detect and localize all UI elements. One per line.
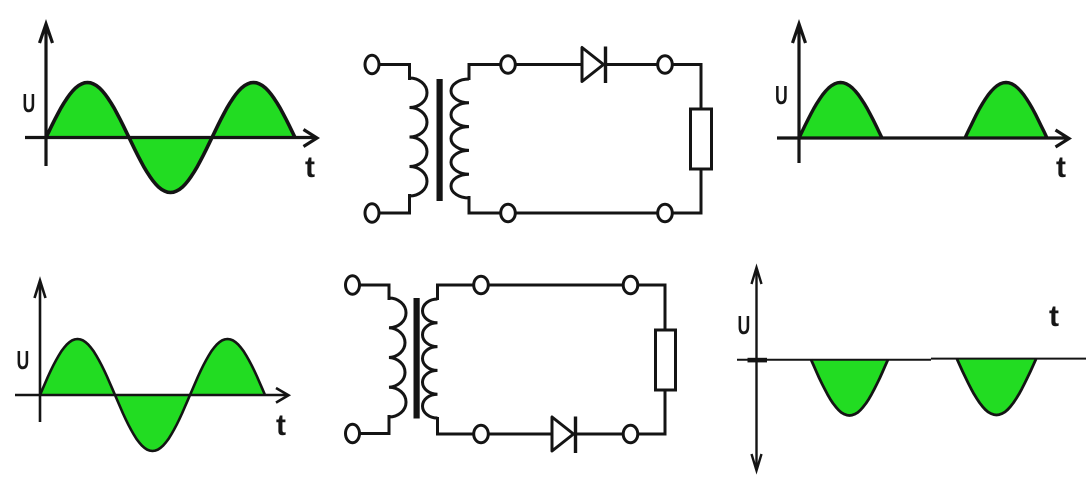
svg-text:t: t [1056,151,1066,184]
transformer core (top circuit) [437,79,443,201]
diode D1 triangle (top circuit) [582,48,604,82]
svg-text:U: U [738,311,751,340]
input sine waveform (top-left graph), green fill [46,83,295,193]
arrowhead up (bottom-right U axis) [752,268,762,285]
node circle top rail left (bottom circuit) [474,276,489,294]
output waveform positive humps (top-right graph) hump 1 [799,83,882,139]
svg-text:U: U [17,346,30,375]
wire secondary top exit and top rail (bottom circuit) [438,285,666,331]
wire primary top (bottom circuit) [353,285,390,300]
arrowhead right (top-right t axis) [1056,130,1070,147]
node circle bottom rail left (top circuit) [501,204,516,222]
svg-text:t: t [276,409,286,442]
axis vertical U (top-left graph) [44,25,47,166]
svg-text:U: U [775,81,788,110]
transformer secondary winding L2 (top circuit) [451,79,469,198]
diode D1 cathode bar (top circuit) [604,47,607,84]
axis horizontal t (top-left graph) [25,136,316,139]
diode D2 triangle (bottom circuit) [552,417,574,451]
svg-text:t: t [305,151,315,184]
terminal circle bottom-left (bottom circuit) [346,424,360,442]
arrowhead right (bottom-left t axis) [276,388,289,403]
output waveform negative hump 1 (bottom-right graph) [811,360,888,416]
axis horizontal t left segment (bottom-right graph) [737,359,931,361]
axis vertical U (top-right graph) [797,25,800,163]
wire top rail diode to corner (top circuit) [606,65,702,111]
arrowhead up (bottom-left U axis) [35,281,46,299]
axis vertical U double-arrow (bottom-right graph) [755,272,757,466]
node circle bottom rail right (top circuit) [658,204,673,222]
terminal circle top-left (bottom circuit) [346,276,360,294]
terminal circle top-left (top circuit) [365,55,379,73]
resistor R2 (bottom circuit) [656,330,676,390]
transformer secondary winding L4 (bottom circuit) [422,299,437,418]
axis vertical U (bottom-left graph) [39,281,42,422]
origin tick mark (bottom-right graph) [748,358,768,363]
node circle top rail right (bottom circuit) [623,276,638,294]
axis horizontal t (top-right graph) [777,136,1068,139]
transformer primary winding L1 (top circuit) [410,78,428,196]
svg-text:t: t [1049,300,1059,333]
node circle top rail right (top circuit) [658,56,673,74]
transformer core (bottom circuit) [414,298,420,419]
node circle bottom rail left (bottom circuit) [474,425,489,443]
arrowhead up (top-left U axis) [40,24,53,43]
arrowhead up (top-right U axis) [793,24,806,43]
wire bottom rail left of diode (bottom circuit) [438,417,553,434]
diode D2 cathode bar (bottom circuit) [574,417,577,454]
wire secondary top exit (top circuit) [469,65,582,81]
transformer primary winding L3 (bottom circuit) [389,298,406,417]
wire resistor to bottom rail (top circuit) [469,169,701,213]
wire primary bottom (top circuit) [372,194,410,213]
output waveform negative hump 2 (bottom-right graph) [957,359,1036,415]
node circle top rail left (top circuit) [501,56,516,74]
terminal circle bottom-left (top circuit) [365,204,379,222]
wire primary bottom (bottom circuit) [353,415,390,434]
axis horizontal t (bottom-left graph) [15,394,288,397]
node circle bottom rail right (bottom circuit) [623,425,638,443]
svg-text:U: U [23,89,36,118]
axis horizontal t right segment (bottom-right graph) [931,358,1086,360]
wire primary top (top circuit) [372,65,410,81]
arrowhead down (bottom-right U axis) [752,454,762,471]
output waveform hump 2 (top-right graph) [965,83,1047,139]
arrowhead right (top-left t axis) [304,130,318,147]
wire resistor to bottom rail right (bottom circuit) [576,390,666,434]
resistor R1 (top circuit) [691,109,712,169]
input sine waveform (bottom-left graph), green fill [40,339,265,451]
